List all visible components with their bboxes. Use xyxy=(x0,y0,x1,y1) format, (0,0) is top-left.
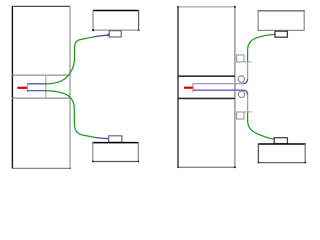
right top conductor vertical run xyxy=(247,62,249,79)
right enclosure lower partition line xyxy=(178,97,235,99)
left enclosure lower partition line xyxy=(12,97,70,99)
right internal wire bottom conductor xyxy=(193,89,243,91)
left top device box corner dot xyxy=(92,29,94,31)
left bottom peripheral device box xyxy=(92,142,139,162)
left connector board vertical tick xyxy=(45,75,47,99)
right upper cable green wire xyxy=(248,34,275,61)
right upper ferrite clamp square xyxy=(237,55,244,62)
left upper cable blue end segment xyxy=(94,35,109,37)
right red arrow terminal bar xyxy=(192,84,194,92)
right top peripheral device box xyxy=(258,11,305,31)
left lower cable green wire xyxy=(46,91,95,138)
right lower cable grommet ring xyxy=(238,91,244,97)
right bottom conductor vertical run xyxy=(247,95,249,112)
left enclosure chassis box xyxy=(12,6,71,169)
left enclosure upper partition line xyxy=(12,74,70,76)
left red arrow terminal bar xyxy=(26,84,28,93)
left bottom peripheral connector plug xyxy=(109,136,122,143)
left upper cable end dot xyxy=(107,34,110,37)
left lower cable blue end segment xyxy=(95,138,109,139)
right upper clamp arm xyxy=(244,61,252,63)
right bottom conductor bend xyxy=(243,90,248,95)
left upper cable green wire xyxy=(46,37,94,84)
right enclosure upper partition line xyxy=(178,75,235,77)
right top conductor bend xyxy=(243,79,248,84)
left top peripheral connector plug xyxy=(109,31,121,37)
right lower cable green wire xyxy=(248,113,275,140)
left internal wire pair top conductor xyxy=(28,83,46,85)
left internal wire pair bottom conductor xyxy=(28,90,46,92)
right lower ferrite clamp square xyxy=(237,112,244,119)
left top peripheral device box xyxy=(92,10,140,31)
right lower clamp arm xyxy=(244,111,252,113)
right internal wire top conductor xyxy=(193,83,243,85)
right enclosure chassis box xyxy=(177,6,236,168)
right bottom peripheral connector plug xyxy=(274,138,287,144)
left noise source red arrow xyxy=(17,87,27,89)
right noise source red arrow xyxy=(184,87,193,89)
right top peripheral connector plug xyxy=(275,31,287,37)
right bottom peripheral device box xyxy=(258,143,307,163)
right upper cable grommet ring xyxy=(238,76,244,82)
